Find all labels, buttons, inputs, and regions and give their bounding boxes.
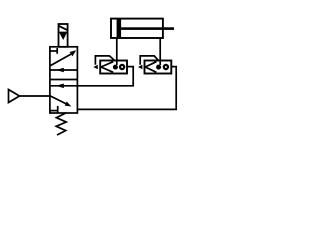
F2 entry stub to ball [159, 61, 161, 66]
cylinder piston [117, 20, 122, 38]
flow path arrow left (position a) [50, 68, 77, 73]
F1 check valve ball [113, 65, 118, 70]
wire cylinder left port to flow control valve 1 [116, 38, 118, 65]
wire cylinder right port to flow control valve 2 [159, 38, 161, 65]
valve actuator box (top) [59, 24, 68, 47]
flow path arrow diagonal (position b) [50, 96, 71, 107]
flow path arrow diagonal (position a) [51, 50, 77, 65]
flow control valve F1 body [100, 61, 127, 74]
wire source to valve port 1 [20, 95, 51, 97]
blocked port T (top-left, position a) [51, 48, 58, 54]
blocked port T (bottom-left, position b) [51, 106, 58, 113]
valve V1 body (5/2-way directional valve, rotated) [50, 47, 78, 113]
flow path arrow left (position b) [50, 84, 77, 89]
return spring (bottom) [56, 113, 66, 135]
cylinder C1 body [111, 19, 163, 38]
F1 adjustment hook arrow [95, 56, 114, 65]
F2 adjustment hook arrow [140, 56, 158, 65]
cylinder piston rod [121, 27, 174, 30]
F2 flow direction arrowhead [138, 65, 142, 70]
wire A: valve output to flow control valve 1 [77, 67, 133, 86]
F1 entry stub to ball [116, 61, 118, 66]
flow control valve F2 body [145, 61, 172, 74]
compressed air source [9, 90, 20, 103]
F1 flow direction arrowhead [93, 65, 98, 70]
F2 check valve seat [145, 62, 156, 73]
F1 throttle ring [120, 65, 124, 69]
F1 check valve seat [101, 62, 113, 73]
wire B: valve output to flow control valve 2 [77, 67, 176, 110]
F2 throttle ring [164, 65, 168, 69]
F2 check valve ball [156, 65, 161, 70]
